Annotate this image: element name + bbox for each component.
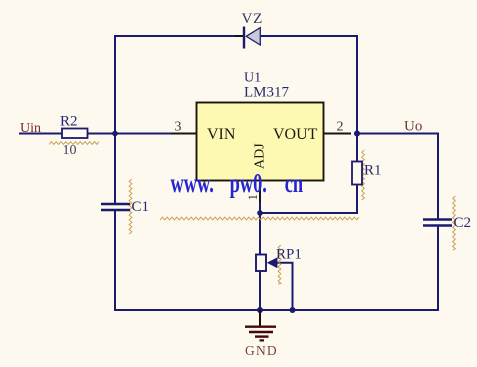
wire: R1 bottom to corner then left to ADJ node [260, 184, 357, 213]
capacitor C2 plates [423, 220, 452, 226]
wire: top bus from left corner to diode VZ [115, 35, 244, 37]
wire: RP1 bottom to bottom bus [259, 270, 261, 310]
svg-text:VIN: VIN [207, 126, 236, 143]
node: junction RP1 bottom on bottom bus [257, 307, 263, 313]
diode VZ left pin stub [235, 35, 244, 37]
resistor R2 body [62, 129, 88, 139]
ground stem [259, 310, 261, 326]
svg-text:10: 10 [63, 143, 77, 158]
svg-text:GND: GND [245, 343, 278, 358]
svg-text:R2: R2 [60, 114, 78, 130]
potentiometer RP1 body [256, 255, 266, 272]
svg-text:VOUT: VOUT [273, 126, 318, 143]
svg-text:2: 2 [337, 120, 344, 135]
capacitor C1 plates [101, 204, 130, 210]
wire: right outer vertical from Uo corner to C2 top plate [437, 134, 439, 219]
ground bar 2 [249, 331, 273, 333]
wire: bottom bus [114, 309, 439, 311]
diode VZ triangle [246, 28, 260, 45]
ground bar 4 [260, 339, 265, 341]
svg-text:R1: R1 [364, 163, 382, 179]
wire: inner right vertical, top corner down to R1 [356, 35, 358, 162]
wire: top bus from diode VZ to right corner [261, 35, 358, 37]
resistor R1 body [352, 162, 362, 185]
wire: left vertical rail from C1 bottom plate to bottom bus [114, 211, 116, 310]
node: junction at left rail / Uin wire [112, 131, 118, 137]
svg-text:3: 3 [175, 120, 182, 135]
wire: right outer vertical from C2 bottom plate to bottom bus [437, 227, 439, 312]
wire: R2 to junction and on to pin 3 of U1 [87, 133, 196, 135]
pin 2 (black pin stub of U1) [324, 133, 352, 135]
node: junction at pin2 / inner right rail [354, 131, 360, 137]
svg-text:U1: U1 [244, 71, 261, 86]
svg-text:LM317: LM317 [244, 85, 290, 101]
squiggle marks (tan) [49, 142, 99, 145]
node: junction ADJ / R1 return [257, 210, 263, 216]
wire: RP1 wiper arm to bottom bus [277, 263, 293, 310]
svg-text:ADJ: ADJ [253, 143, 268, 169]
wire: ADJ pin down through node to RP1 top [259, 177, 261, 256]
ground bar 3 [255, 335, 269, 337]
pin 1 ADJ (black pin stub of U1) [259, 180, 261, 202]
svg-text:VZ: VZ [242, 11, 264, 27]
svg-text:Uo: Uo [404, 119, 422, 135]
svg-text:C1: C1 [132, 199, 150, 215]
wire: VOUT pin 2 junction to Uo corner [356, 133, 439, 135]
node: junction wiper on bottom bus [290, 307, 296, 313]
pin 3 (black pin stub of U1) [171, 133, 196, 135]
potentiometer RP1 wiper arrowhead [267, 257, 278, 268]
svg-text:C2: C2 [454, 215, 472, 231]
svg-text:RP1: RP1 [276, 247, 302, 263]
diode VZ cathode bar [243, 27, 245, 49]
op-amp U1 LM317 body [197, 103, 324, 181]
svg-text:Uin: Uin [20, 121, 41, 136]
wire: left vertical rail down to C1 top plate [114, 35, 116, 203]
wire: Uin input to R2 [19, 133, 63, 135]
ground bar 1 [245, 326, 276, 328]
